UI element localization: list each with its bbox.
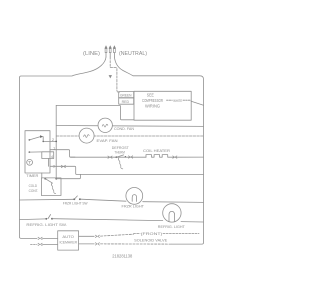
timer wire arrow tip to terminal 2	[43, 137, 56, 142]
motor evaporator fan	[79, 128, 94, 143]
connector on terminal 3 row	[61, 165, 65, 167]
timer junction dot	[42, 141, 44, 143]
cold control right dot	[55, 178, 57, 180]
svg-text:TIMER: TIMER	[26, 173, 38, 178]
wire feeder vertical at x=56.5	[55, 105, 57, 178]
wire timer to cold control	[41, 173, 43, 178]
cold control left dot	[44, 178, 46, 180]
wire refrig light row (middle)	[53, 219, 163, 221]
freezer light switch	[73, 196, 81, 200]
svg-text:3: 3	[53, 163, 56, 168]
svg-text:DEFROST: DEFROST	[112, 146, 130, 150]
wire evaporator fan line	[56, 135, 203, 137]
svg-text:ICEMAKER: ICEMAKER	[60, 240, 78, 244]
svg-text:COIL HEATER: COIL HEATER	[143, 149, 171, 153]
svg-text:REFRIG. LIGHT SW.: REFRIG. LIGHT SW.	[26, 223, 67, 227]
wire icemaker feed to box	[43, 237, 58, 239]
node terminal-2 junction dot	[55, 141, 57, 143]
wire icemaker out lower	[79, 243, 95, 245]
node defrost therm junction dot	[116, 156, 118, 158]
svg-text:(LINE): (LINE)	[83, 51, 100, 57]
svg-text:COND. FAN: COND. FAN	[114, 127, 134, 131]
node GROUND plug prong	[109, 45, 112, 57]
connector icemaker out lower	[95, 243, 99, 245]
label WHITE with leader dashes	[167, 99, 192, 103]
svg-text:THERM: THERM	[114, 150, 125, 154]
timer inner wire down	[48, 159, 50, 167]
timer box	[25, 131, 50, 173]
wire defrost row right segment	[171, 156, 204, 158]
cold control capillary squiggle	[51, 183, 55, 193]
svg-text:SEE: SEE	[147, 92, 154, 97]
wire icemaker stub to box	[43, 243, 58, 245]
node LINE plug prong	[104, 45, 107, 57]
wire refrig light row (right)	[181, 221, 204, 223]
defrost thermostat capillary squiggle	[118, 158, 123, 169]
connector on defrost row (left)	[108, 156, 112, 158]
cold control switch arm	[45, 179, 52, 184]
front partition dashed line with label	[134, 232, 200, 236]
wire freezer light row (middle)	[81, 199, 126, 201]
svg-text:FRZR LIGHT SW: FRZR LIGHT SW	[63, 202, 88, 206]
connector on defrost row (right of therm)	[129, 156, 133, 158]
svg-text:REFRIG. LIGHT: REFRIG. LIGHT	[158, 225, 186, 229]
svg-text:SOLENOID VALVE: SOLENOID VALVE	[134, 239, 168, 243]
connector icemaker out upper	[95, 235, 99, 237]
icemaker box	[58, 231, 79, 250]
svg-text:CONT.: CONT.	[29, 189, 39, 193]
timer contact dot upper	[29, 139, 31, 141]
wire line rail: from LINE prong, left along y=76, down left side to icemaker row	[20, 57, 107, 238]
lamp freezer light	[126, 188, 143, 205]
wire freezer light row (left)	[20, 198, 74, 201]
wire icemaker lower dashed run to solenoid	[101, 243, 172, 245]
lamp refrig light	[163, 204, 181, 222]
svg-text:RED: RED	[122, 100, 130, 104]
refrig light switch	[45, 215, 53, 220]
svg-text:(FRONT): (FRONT)	[141, 232, 164, 236]
svg-text:FRZR LIGHT: FRZR LIGHT	[122, 205, 145, 209]
wire neutral rail: from NEUTRAL prong, right along y=75, down right side, to solenoid	[114, 57, 203, 244]
timer motor	[27, 159, 33, 165]
wire red feed: feeder to compressor bottom	[56, 105, 134, 119]
motor condenser fan	[98, 118, 112, 132]
wire cold control out, jog up to terminal-3 row	[56, 174, 80, 178]
label COLD CONT.	[29, 184, 39, 193]
svg-text:WIRING: WIRING	[145, 104, 161, 109]
wire terminal 3 row to neutral rail	[50, 166, 204, 174]
wire freezer light row (right)	[143, 201, 204, 204]
compressor box U1: SEE COMPRESSOR WIRING	[134, 91, 191, 120]
wire condenser fan line	[56, 125, 203, 128]
terminal RED	[119, 98, 134, 104]
cold control box	[41, 178, 61, 196]
wire icemaker out upper	[79, 235, 95, 237]
svg-text:COLD: COLD	[29, 184, 38, 188]
wire refrig light row (left)	[20, 218, 46, 221]
svg-text:WHITE: WHITE	[173, 99, 183, 103]
wire icemaker upper dashed run to front	[101, 234, 134, 236]
connector on icemaker stub	[38, 243, 42, 245]
svg-text:218281138: 218281138	[112, 253, 133, 258]
svg-text:AUTO: AUTO	[62, 235, 74, 239]
svg-text:COMPRESSOR: COMPRESSOR	[142, 98, 163, 103]
defrost thermostat arm	[116, 155, 123, 157]
node NEUTRAL plug prong	[113, 45, 116, 57]
wire ground dashed drop from middle prong	[109, 57, 111, 67]
timer inner cam box	[42, 152, 54, 159]
timer contact arm upper with arrowhead	[29, 135, 43, 140]
wire icemaker stub dangling (dashed)	[31, 243, 38, 245]
connector on icemaker feed row	[38, 237, 42, 239]
wire ground elbow to GREEN terminal	[110, 68, 119, 93]
wire defrost row left segment	[71, 156, 147, 158]
svg-text:GREEN: GREEN	[120, 94, 132, 98]
svg-text:EVAP. FAN: EVAP. FAN	[97, 139, 118, 143]
terminal GREEN	[119, 92, 134, 98]
timer contact dot lower	[29, 151, 31, 153]
timer contact arm lower	[29, 151, 41, 153]
wire terminal 1 elbow to defrost row	[50, 150, 75, 158]
svg-text:(NEUTRAL): (NEUTRAL)	[119, 51, 147, 57]
wire white: compressor to neutral rail	[191, 101, 203, 105]
connector after coil heater	[173, 156, 177, 158]
heater element coil heater (square wave)	[146, 155, 171, 158]
ground arrow	[109, 75, 112, 78]
